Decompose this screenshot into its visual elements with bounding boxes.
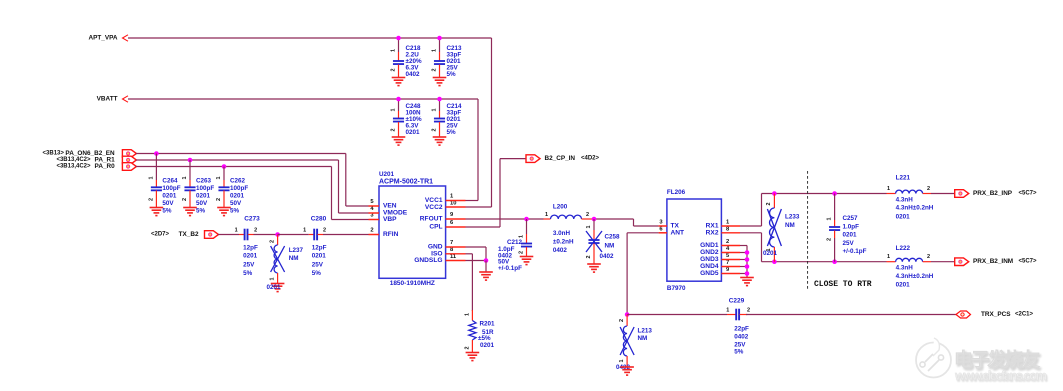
svg-text:0201: 0201 [896, 214, 911, 221]
svg-text:5%: 5% [447, 71, 457, 78]
svg-text:RFIN: RFIN [383, 231, 399, 238]
port flag B2_CP_IN [526, 155, 540, 163]
junction C264 top [154, 151, 159, 156]
U201 pin stubs right [446, 200, 466, 202]
svg-text:2: 2 [747, 307, 750, 313]
svg-text:2: 2 [391, 68, 397, 71]
svg-text:C273: C273 [244, 216, 260, 223]
junction C258 [592, 217, 597, 222]
svg-text:0402: 0402 [734, 334, 749, 341]
svg-text:FL206: FL206 [667, 189, 686, 196]
junction C214 top [437, 97, 442, 102]
ground C213 [433, 77, 447, 79]
wire RX2 net [740, 232, 762, 234]
capacitor C248 [398, 99, 400, 111]
svg-text:NM: NM [785, 222, 795, 229]
svg-text:GNDSLG: GNDSLG [414, 257, 442, 264]
svg-text:0201: 0201 [230, 193, 245, 200]
svg-text:L221: L221 [896, 175, 911, 182]
capacitor C263 [189, 160, 191, 180]
capacitor C280 [313, 229, 315, 241]
wire ISO net to R201 [466, 253, 473, 255]
svg-text:1: 1 [545, 212, 548, 218]
svg-text:9: 9 [450, 212, 454, 218]
capacitor C218 [398, 38, 400, 52]
svg-text:<2D7>: <2D7> [151, 232, 170, 238]
port flag PA_R0 [122, 163, 136, 171]
svg-text:1: 1 [619, 359, 625, 362]
capacitor C229 [735, 309, 737, 321]
svg-text:C263: C263 [196, 178, 212, 185]
ground L237 [271, 283, 285, 285]
svg-text:0201: 0201 [243, 253, 258, 260]
svg-text:4: 4 [726, 246, 730, 252]
svg-text:5%: 5% [162, 208, 172, 215]
svg-text:1: 1 [450, 194, 454, 200]
svg-text:1850-1910MHZ: 1850-1910MHZ [390, 280, 435, 287]
wire ANT net down [627, 232, 659, 234]
svg-text:VCC2: VCC2 [425, 204, 443, 211]
svg-text:GND4: GND4 [700, 263, 719, 270]
svg-text:0201: 0201 [196, 193, 211, 200]
svg-text:2: 2 [619, 319, 625, 322]
svg-text:0201: 0201 [406, 129, 421, 136]
junction C248 top [396, 97, 401, 102]
svg-text:GND5: GND5 [700, 270, 719, 277]
port flag PRX_B2_INP [955, 190, 969, 198]
watermark logo [916, 338, 1047, 383]
svg-text:<5C7>: <5C7> [1019, 191, 1038, 197]
junction C257 bottom [832, 259, 837, 264]
ground C262 [217, 207, 231, 209]
capacitor C257 [834, 194, 836, 221]
svg-text:100pF: 100pF [196, 185, 214, 192]
svg-text:100pF: 100pF [162, 185, 180, 192]
svg-text:APT_VPA: APT_VPA [88, 35, 117, 42]
wire GNDSLG net [466, 260, 487, 262]
svg-text:7: 7 [726, 260, 729, 266]
wire PA_ON6_B2_EN to VEN [346, 205, 369, 207]
svg-text:2: 2 [182, 198, 188, 201]
capacitor C273 [244, 229, 246, 241]
wire VCC1 to VBATT riser [466, 200, 479, 202]
U201 pin stubs left [369, 205, 380, 207]
junction L233 top [772, 191, 777, 196]
wire PA_R1 rail [136, 159, 339, 161]
svg-text:TX_B2: TX_B2 [179, 231, 199, 238]
svg-text:5: 5 [726, 253, 730, 259]
svg-text:2: 2 [270, 240, 276, 243]
ground L213 [620, 366, 634, 368]
junction GND3 [745, 257, 750, 262]
svg-text:2: 2 [323, 227, 326, 233]
svg-text:VCC1: VCC1 [425, 197, 443, 204]
ground R201 [466, 352, 480, 354]
svg-text:GND2: GND2 [700, 249, 719, 256]
wire APT_VPA vertical to VCC2 [491, 38, 493, 207]
svg-text:9: 9 [726, 267, 730, 273]
svg-text:2: 2 [391, 128, 397, 131]
svg-text:1: 1 [465, 313, 471, 316]
svg-text:100pF: 100pF [230, 185, 248, 192]
svg-text:C280: C280 [311, 216, 327, 223]
wire APT_VPA rail [128, 37, 492, 39]
svg-text:2: 2 [586, 212, 589, 218]
svg-text:0201: 0201 [162, 193, 177, 200]
svg-text:ANT: ANT [671, 229, 685, 236]
svg-text:0402: 0402 [600, 253, 615, 260]
svg-text:1: 1 [391, 49, 397, 52]
svg-text:5%: 5% [447, 129, 457, 136]
svg-text:5%: 5% [734, 349, 744, 356]
port flag TX_B2 [205, 231, 219, 239]
inductor L222 [887, 261, 896, 263]
svg-text:0201: 0201 [480, 342, 495, 349]
capacitor C214 [439, 99, 441, 111]
svg-text:GND1: GND1 [700, 242, 719, 249]
svg-text:6: 6 [659, 226, 663, 232]
capacitor C262 [223, 167, 225, 181]
port arrow VBATT [123, 96, 129, 102]
svg-text:8: 8 [726, 226, 730, 232]
svg-text:22pF: 22pF [734, 326, 749, 333]
svg-text:2: 2 [216, 198, 222, 201]
svg-text:50V: 50V [162, 200, 174, 207]
svg-text:CLOSE TO RTR: CLOSE TO RTR [814, 280, 872, 289]
svg-text:GND3: GND3 [700, 256, 719, 263]
svg-text:2: 2 [148, 198, 154, 201]
svg-text:2: 2 [465, 346, 471, 349]
wire VCC2 to APT riser [466, 206, 492, 208]
svg-text:C212: C212 [507, 239, 523, 246]
svg-text:VBATT: VBATT [97, 96, 118, 103]
svg-text:1: 1 [586, 225, 592, 228]
svg-text:1: 1 [887, 186, 890, 192]
junction C213 top [437, 36, 442, 41]
svg-text:8: 8 [450, 247, 454, 253]
ground C218 [392, 77, 406, 79]
wire RX1 net [740, 225, 762, 227]
svg-text:25V: 25V [843, 240, 855, 247]
svg-text:0201: 0201 [267, 284, 282, 291]
wire VBATT rail [128, 98, 478, 100]
wire PA_R0 to VBP [332, 219, 369, 221]
svg-text:L200: L200 [553, 204, 568, 211]
svg-text:B7970: B7970 [667, 285, 686, 292]
svg-text:R201: R201 [480, 321, 496, 328]
svg-text:2: 2 [519, 251, 525, 254]
svg-text:12pF: 12pF [312, 244, 327, 251]
svg-text:3: 3 [659, 220, 663, 226]
svg-text:6: 6 [450, 220, 454, 226]
svg-text:1: 1 [148, 176, 154, 179]
svg-text:4.3nH: 4.3nH [896, 264, 914, 271]
op-amp U201 ACPM-5002-TR1 body [379, 186, 446, 278]
svg-text:0201: 0201 [843, 232, 858, 239]
svg-text:C262: C262 [230, 178, 246, 185]
svg-text:www.elecfans.com: www.elecfans.com [954, 368, 1047, 383]
svg-text:NM: NM [289, 255, 299, 262]
svg-text:+/-0.1pF: +/-0.1pF [843, 248, 867, 255]
svg-text:2: 2 [254, 227, 257, 233]
svg-text:PRX_B2_INP: PRX_B2_INP [973, 190, 1013, 197]
svg-text:C258: C258 [605, 234, 621, 241]
wire RFOUT net [466, 218, 544, 220]
svg-text:2: 2 [927, 254, 930, 260]
svg-text:2: 2 [586, 255, 592, 258]
svg-text:1: 1 [726, 220, 730, 226]
wire to FL206 TX [633, 219, 635, 226]
svg-text:±5%: ±5% [478, 335, 491, 342]
svg-text:50V: 50V [196, 200, 208, 207]
svg-text:0201: 0201 [763, 250, 778, 257]
wire junction to C280 [278, 234, 309, 236]
svg-text:1: 1 [235, 227, 238, 233]
svg-text:5%: 5% [243, 270, 253, 277]
svg-text:C229: C229 [729, 298, 745, 305]
ground C212 [520, 256, 534, 258]
svg-text:5%: 5% [312, 270, 322, 277]
dashed boundary line [807, 171, 809, 289]
svg-text:CPL: CPL [429, 224, 442, 231]
FL206 pin stubs [659, 225, 667, 227]
svg-text:1: 1 [182, 176, 188, 179]
svg-text:25V: 25V [734, 341, 746, 348]
svg-text:10: 10 [450, 201, 456, 207]
svg-text:L233: L233 [785, 214, 800, 221]
junction GND-GNDSLG [484, 258, 489, 263]
svg-text:2: 2 [827, 238, 833, 241]
svg-text:<5C7>: <5C7> [1019, 259, 1038, 265]
svg-text:50V: 50V [230, 200, 242, 207]
junction L213 [625, 312, 630, 317]
svg-text:RFOUT: RFOUT [420, 216, 443, 223]
inductor L233 (NM) [773, 194, 775, 209]
wire PA_R1 to VMODE [339, 212, 369, 214]
capacitor C213 [439, 38, 441, 52]
junction GND5 [745, 271, 750, 276]
wire PRX_B2_INM rail [762, 261, 887, 263]
svg-text:RX2: RX2 [706, 229, 719, 236]
svg-text:2: 2 [432, 68, 438, 71]
svg-text:L222: L222 [896, 245, 911, 252]
svg-text:12pF: 12pF [243, 244, 258, 251]
junction C218 top [396, 36, 401, 41]
svg-text:ACPM-5002-TR1: ACPM-5002-TR1 [379, 179, 433, 186]
filter FL206 body [667, 199, 722, 281]
svg-text:L237: L237 [289, 247, 304, 254]
svg-text:PA_R0: PA_R0 [95, 163, 116, 170]
svg-text:PRX_B2_INM: PRX_B2_INM [973, 258, 1013, 265]
svg-text:7: 7 [450, 240, 453, 246]
wire TRX to C229 [627, 314, 727, 316]
junction TX_B2 node [275, 232, 280, 237]
junction C263 top [188, 158, 193, 163]
ground U201 GND [479, 271, 493, 273]
svg-text:2: 2 [726, 239, 729, 245]
svg-text:5%: 5% [230, 208, 240, 215]
wire PA_ON6_B2_EN rail [136, 153, 346, 155]
wire L222 to flag [931, 261, 955, 263]
svg-text:1: 1 [270, 277, 276, 280]
svg-text:1: 1 [887, 254, 890, 260]
svg-text:+/-0.1pF: +/-0.1pF [498, 265, 522, 272]
wire L200 to C258 junction [592, 218, 634, 220]
svg-text:5: 5 [370, 199, 374, 205]
svg-text:U201: U201 [379, 171, 395, 178]
junction C262 top [222, 164, 227, 169]
svg-text:1: 1 [726, 307, 729, 313]
svg-text:<4D2>: <4D2> [581, 156, 600, 162]
wire CPL net [466, 226, 501, 228]
svg-text:2: 2 [370, 228, 373, 234]
svg-text:L213: L213 [638, 327, 653, 334]
svg-text:C257: C257 [843, 215, 859, 222]
svg-text:4.3nH: 4.3nH [896, 196, 914, 203]
svg-text:11: 11 [450, 254, 457, 260]
svg-text:±0.2nH: ±0.2nH [553, 239, 574, 246]
capacitor C212 [526, 219, 528, 234]
svg-text:0201: 0201 [896, 282, 911, 289]
port flag PA_R1 [122, 156, 136, 164]
junction C257 top [832, 191, 837, 196]
svg-text:<2C1>: <2C1> [1015, 312, 1034, 318]
wire C273 to junction [254, 234, 278, 236]
ground FL206 [740, 277, 754, 279]
svg-text:1: 1 [303, 227, 306, 233]
svg-text:0402: 0402 [406, 71, 421, 78]
svg-text:4.3nH±0.2nH: 4.3nH±0.2nH [896, 273, 934, 280]
svg-text:1.0pF: 1.0pF [843, 223, 860, 230]
svg-text:VBP: VBP [383, 216, 397, 223]
svg-text:1: 1 [432, 49, 438, 52]
svg-text:5%: 5% [196, 208, 206, 215]
svg-text:2: 2 [927, 186, 930, 192]
wire VBATT vertical to VCC1 [477, 99, 479, 201]
port arrow APT_VPA [123, 35, 129, 41]
junction GND4 [745, 264, 750, 269]
wire PA_R0 rail [136, 166, 332, 168]
svg-text:4: 4 [370, 206, 374, 212]
port flag PRX_B2_INM [955, 258, 969, 266]
ground C248 [392, 136, 406, 138]
svg-text:<3B13>: <3B13> [43, 151, 65, 157]
svg-text:25V: 25V [243, 261, 255, 268]
ground C214 [433, 136, 447, 138]
svg-text:1: 1 [519, 235, 525, 238]
wire PRX_B2_INP rail [762, 193, 887, 195]
port flag TRX_PCS [956, 311, 971, 318]
svg-text:TRX_PCS: TRX_PCS [981, 311, 1011, 318]
capacitor C258 (NM) [593, 219, 595, 230]
svg-text:1: 1 [391, 108, 397, 111]
port flag PA_ON6_B2_EN [122, 150, 136, 158]
svg-text:C264: C264 [162, 178, 178, 185]
resistor R201 [471, 310, 473, 321]
junction C212 [524, 217, 529, 222]
svg-text:1: 1 [432, 108, 438, 111]
svg-text:0402: 0402 [553, 247, 568, 254]
wire GND net [466, 246, 487, 248]
svg-text:<3B13,4C2>: <3B13,4C2> [56, 157, 91, 163]
wire FL206 GND chain [740, 245, 747, 247]
ground C258 [587, 263, 601, 265]
svg-text:<3B13,4C2>: <3B13,4C2> [56, 164, 91, 170]
svg-text:2: 2 [766, 202, 772, 205]
wire C229 to flag [746, 314, 956, 316]
svg-text:NM: NM [605, 243, 615, 250]
svg-text:2: 2 [432, 128, 438, 131]
wire C280 to RFIN [323, 234, 369, 236]
svg-text:VEN: VEN [383, 203, 397, 210]
ground C264 [150, 207, 164, 209]
inductor L200 [544, 218, 551, 220]
svg-text:1: 1 [827, 217, 833, 220]
junction GND2 [745, 250, 750, 255]
svg-text:0201: 0201 [312, 253, 327, 260]
ground C263 [183, 207, 197, 209]
svg-text:B2_CP_IN: B2_CP_IN [545, 155, 576, 162]
svg-text:25V: 25V [312, 261, 324, 268]
svg-text:4.3nH±0.2nH: 4.3nH±0.2nH [896, 205, 934, 212]
inductor L213 (NM) [626, 315, 628, 327]
inductor L221 [887, 193, 896, 195]
svg-text:3.0nH: 3.0nH [553, 230, 571, 237]
inductor L237 (NM) [277, 235, 279, 246]
svg-text:NM: NM [638, 335, 648, 342]
capacitor C264 [155, 154, 157, 181]
wire TX_B2 to C273 [218, 234, 239, 236]
junction L233 bottom [772, 259, 777, 264]
wire L221 to flag [931, 193, 955, 195]
svg-text:1: 1 [216, 176, 222, 179]
